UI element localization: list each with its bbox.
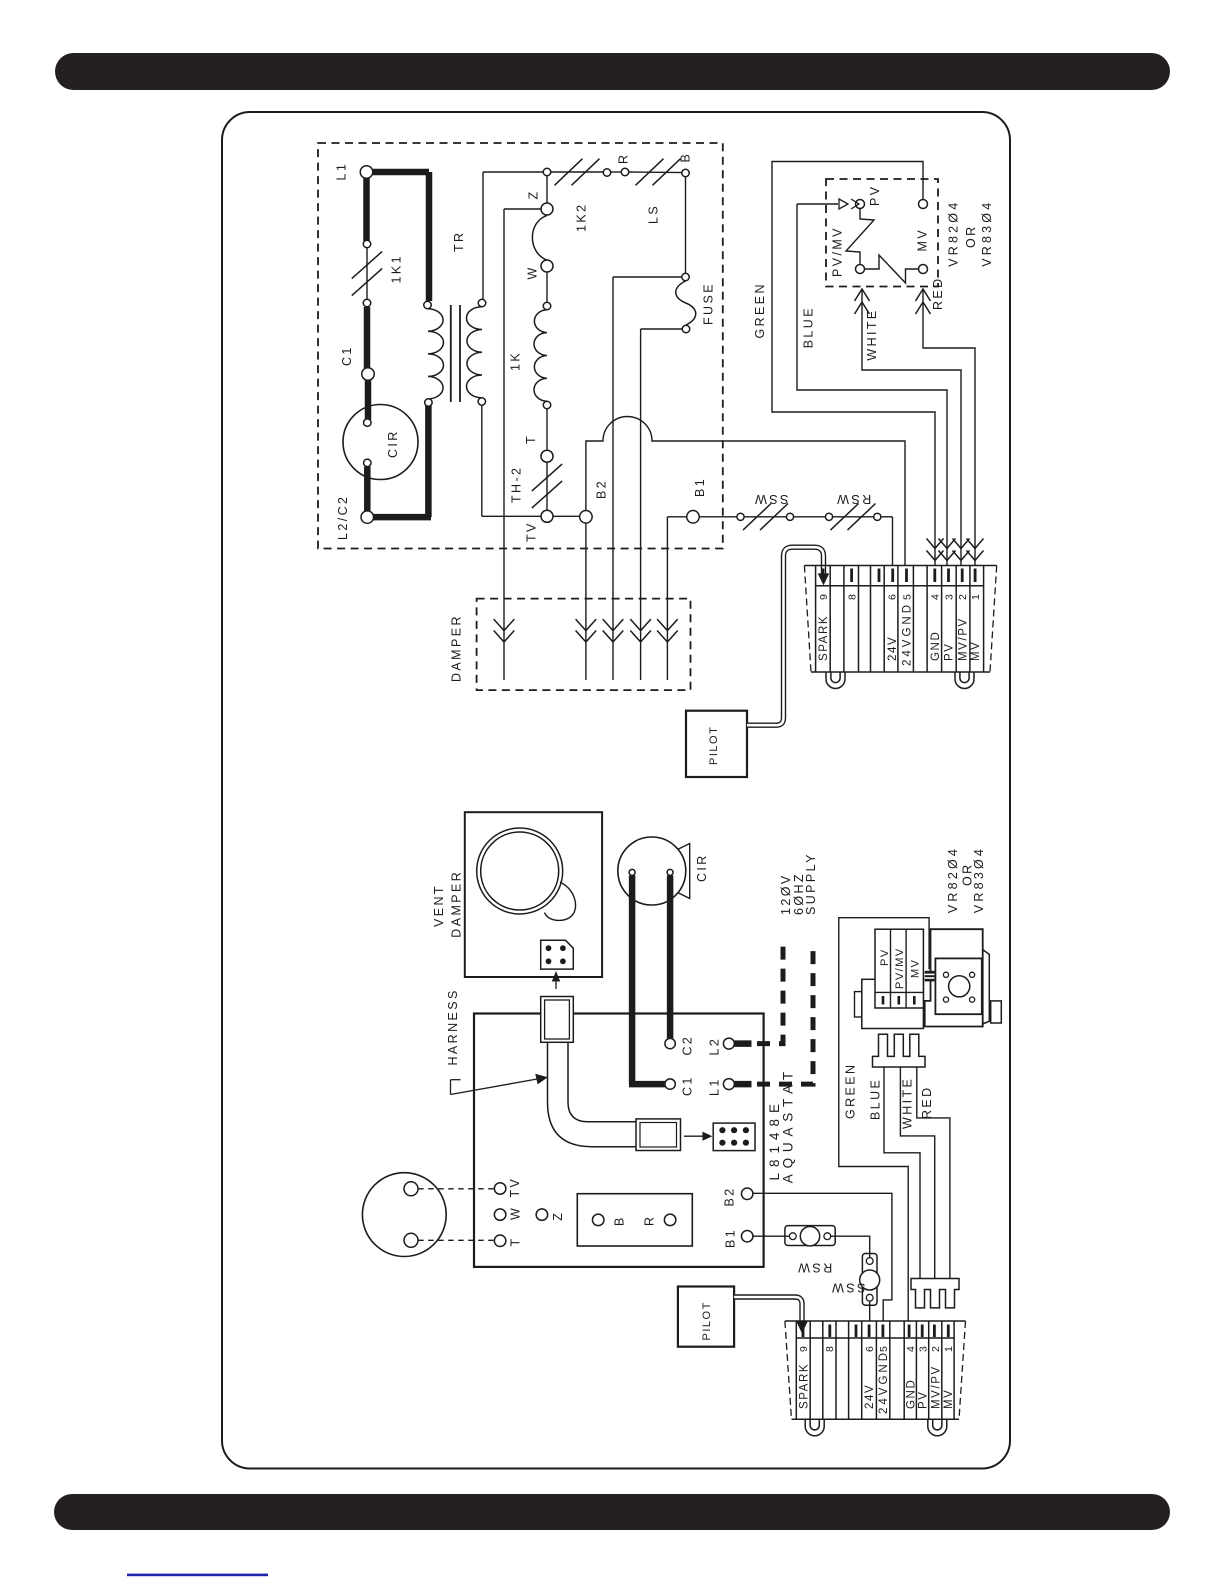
svg-text:B: B [613, 1215, 627, 1226]
svg-text:GND: GND [905, 1379, 917, 1409]
svg-text:24VGND: 24VGND [878, 1350, 890, 1414]
svg-text:PV/MV: PV/MV [831, 226, 845, 277]
svg-text:1K1: 1K1 [390, 254, 404, 283]
svg-text:OR: OR [964, 224, 978, 248]
svg-text:24VGND: 24VGND [902, 602, 914, 666]
svg-text:MV: MV [943, 1389, 955, 1409]
svg-text:1K: 1K [509, 351, 523, 371]
svg-text:Z: Z [551, 1211, 565, 1221]
svg-text:RSW: RSW [796, 1260, 832, 1274]
svg-text:FUSE: FUSE [702, 282, 716, 325]
svg-text:B: B [679, 152, 693, 163]
svg-text:GND: GND [930, 631, 942, 661]
svg-text:CIR: CIR [695, 853, 709, 882]
svg-text:B2: B2 [594, 479, 608, 499]
svg-text:B1: B1 [724, 1228, 738, 1248]
svg-text:VENT: VENT [432, 884, 446, 927]
svg-text:PV: PV [868, 185, 882, 206]
svg-text:R: R [643, 1215, 657, 1226]
svg-text:C2: C2 [681, 1035, 695, 1056]
svg-text:MV: MV [909, 959, 921, 979]
svg-text:1: 1 [970, 593, 982, 600]
svg-text:8: 8 [846, 593, 858, 600]
svg-text:BLUE: BLUE [802, 306, 816, 348]
svg-text:B2: B2 [723, 1186, 737, 1206]
svg-text:TV: TV [525, 521, 539, 542]
svg-text:RED: RED [931, 276, 945, 310]
svg-text:9: 9 [818, 593, 830, 600]
svg-text:BLUE: BLUE [869, 1078, 883, 1120]
svg-text:PILOT: PILOT [701, 1301, 713, 1340]
svg-text:WHITE: WHITE [900, 1077, 914, 1129]
svg-text:PV: PV [944, 642, 956, 661]
svg-text:CIR: CIR [386, 429, 400, 458]
svg-text:SUPPLY: SUPPLY [804, 852, 818, 915]
svg-text:L2: L2 [708, 1037, 722, 1056]
svg-text:L1: L1 [335, 162, 349, 181]
svg-text:W: W [526, 265, 540, 279]
svg-text:PV/MV: PV/MV [894, 947, 906, 989]
svg-text:Z: Z [527, 189, 541, 199]
svg-text:B1: B1 [693, 477, 707, 497]
svg-text:6: 6 [887, 593, 899, 600]
svg-text:3: 3 [943, 593, 955, 600]
svg-text:24V: 24V [887, 636, 899, 661]
svg-text:AQUASTAT: AQUASTAT [780, 1066, 795, 1183]
svg-text:5: 5 [901, 593, 913, 600]
svg-text:4: 4 [905, 1345, 917, 1352]
svg-text:DAMPER: DAMPER [450, 614, 464, 682]
svg-text:9: 9 [798, 1345, 810, 1352]
svg-text:MV/PV: MV/PV [957, 617, 969, 661]
svg-text:LS: LS [647, 204, 661, 224]
svg-text:MV: MV [970, 641, 982, 661]
svg-text:SPARK: SPARK [818, 615, 830, 661]
svg-text:R: R [617, 153, 631, 164]
svg-text:VR82Ø4: VR82Ø4 [947, 200, 961, 267]
svg-text:RED: RED [920, 1085, 934, 1119]
svg-text:8: 8 [824, 1345, 836, 1352]
svg-text:1: 1 [943, 1345, 955, 1352]
svg-text:VR83Ø4: VR83Ø4 [980, 200, 994, 267]
svg-text:2: 2 [930, 1345, 942, 1352]
svg-text:MV: MV [916, 228, 930, 252]
svg-text:PV: PV [918, 1390, 930, 1409]
svg-text:6: 6 [864, 1345, 876, 1352]
svg-text:MV/PV: MV/PV [930, 1365, 942, 1409]
svg-text:SSW: SSW [830, 1280, 866, 1294]
svg-text:24V: 24V [864, 1384, 876, 1409]
svg-text:2: 2 [957, 593, 969, 600]
svg-text:PV: PV [879, 948, 891, 966]
svg-text:TV: TV [508, 1177, 522, 1198]
svg-text:RSW: RSW [835, 492, 871, 506]
svg-text:VR83Ø4: VR83Ø4 [972, 846, 986, 913]
svg-text:GREEN: GREEN [753, 282, 767, 338]
svg-text:HARNESS: HARNESS [446, 988, 460, 1065]
svg-text:3: 3 [917, 1345, 929, 1352]
svg-text:C1: C1 [681, 1075, 695, 1096]
svg-text:L2/C2: L2/C2 [336, 495, 350, 540]
svg-text:WHITE: WHITE [865, 308, 879, 360]
svg-text:VR82Ø4: VR82Ø4 [946, 846, 960, 913]
svg-text:L1: L1 [708, 1077, 722, 1096]
svg-text:4: 4 [930, 593, 942, 600]
svg-text:TR: TR [452, 231, 466, 252]
svg-text:C1: C1 [340, 345, 354, 366]
svg-text:GREEN: GREEN [843, 1063, 857, 1119]
svg-text:T: T [509, 1236, 523, 1246]
svg-text:SPARK: SPARK [798, 1363, 810, 1409]
svg-text:W: W [509, 1206, 523, 1220]
svg-text:PILOT: PILOT [708, 726, 720, 765]
svg-text:DAMPER: DAMPER [450, 870, 464, 938]
svg-text:SSW: SSW [753, 492, 789, 506]
svg-text:1K2: 1K2 [575, 203, 589, 232]
svg-text:T: T [524, 434, 538, 444]
svg-text:TH-2: TH-2 [510, 466, 524, 503]
